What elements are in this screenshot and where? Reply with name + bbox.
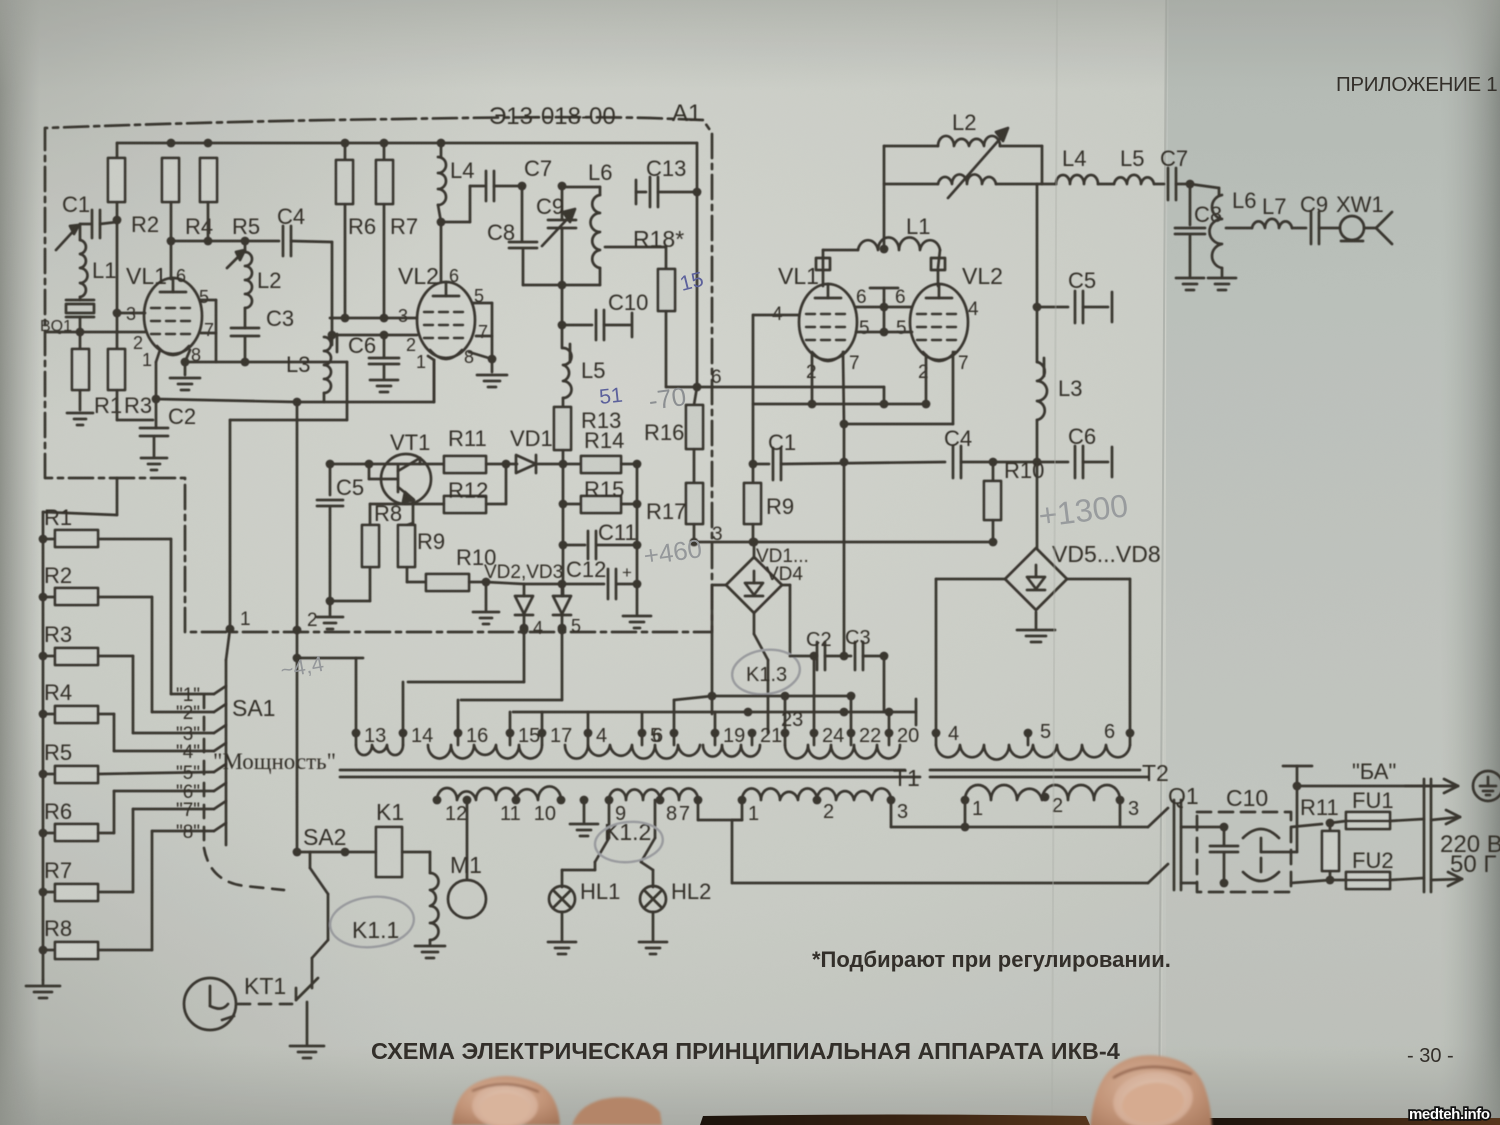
capacitor C2 power: [790, 629, 851, 670]
label VD2 VD3: [484, 562, 563, 583]
VL2 pin numbers: [398, 286, 488, 372]
title СХЕМА ЭЛЕКТРИЧЕСКАЯ: [371, 1038, 1120, 1064]
tube VL1 power: [778, 258, 857, 361]
resistor R9 osc: [398, 523, 445, 567]
resistor R5: [200, 158, 260, 245]
fuse FU2: [1291, 848, 1424, 889]
VL2 pin 5 7 leads and ground: [469, 303, 507, 387]
dashed link KT1: [238, 1003, 292, 1006]
wire grid links between tubes: [856, 307, 912, 332]
tube VL2 oscillator: [398, 263, 475, 359]
heading ПРИЛОЖЕНИЕ 1: [1336, 73, 1497, 96]
T1 secondary tap numbers: [445, 801, 908, 825]
capacitor C5 osc: [317, 464, 364, 605]
svg-text:medteh.info: medteh.info: [1409, 1106, 1490, 1123]
watermark medteh.info: [1409, 1106, 1490, 1123]
wire cathode bus y362: [185, 358, 347, 629]
transformer T1 primary winding: [356, 745, 900, 759]
VL2 power pin7 lead: [952, 352, 955, 424]
label L5: [1120, 146, 1144, 171]
ground under C5: [317, 601, 343, 629]
wire node3 rail: [694, 541, 993, 544]
capacitor C8 power: [1175, 184, 1222, 276]
resistor R8 divider: [39, 831, 214, 959]
capacitor C2: [140, 399, 196, 470]
resistor R2 divider: [39, 563, 214, 712]
feedthrough element inside C10: [1243, 829, 1297, 881]
inductor L3 power: [1037, 307, 1082, 420]
bridge VD1-4 left wire: [708, 585, 726, 714]
label T2: [1142, 760, 1169, 786]
resistor R10 power: [984, 458, 1044, 546]
wire AC line lower y883: [732, 882, 1148, 885]
wire node4 to tap14: [403, 626, 528, 733]
capacitor C1: [56, 192, 117, 250]
table strip dark: [700, 1115, 1500, 1125]
handwritten 51 blue: [598, 384, 624, 409]
wire L3 to bus: [323, 393, 326, 402]
resistor R9 power: [744, 464, 794, 546]
motor M1: [448, 796, 486, 918]
page number -30-: [1407, 1045, 1454, 1067]
capacitor C7 oscillator: [441, 156, 552, 222]
resistor R16: [644, 387, 703, 483]
resistor R1 divider: [39, 505, 214, 694]
capacitor C12: [563, 557, 641, 599]
switch SA1 contact arrows: [214, 686, 226, 831]
transformer T2 primary tap numbers: [948, 721, 1115, 745]
wire node2 to tap13: [293, 630, 363, 733]
VL1 pin 5 and 7 leads: [200, 300, 216, 362]
capacitor C6 oscillator: [348, 333, 399, 392]
handwritten +1300 pencil: [1036, 487, 1130, 534]
arrow БА: [1405, 779, 1458, 793]
inductor L6 oscillator: [562, 160, 612, 285]
inductor L1: [80, 224, 116, 297]
lamp HL2: [640, 862, 711, 940]
label L4: [1062, 146, 1086, 171]
wire top rail: [117, 139, 697, 387]
VL1 power pin7 lead: [840, 352, 849, 428]
corner shadow overlays: [0, 0, 520, 1125]
resistor R4: [162, 158, 213, 245]
bridge rectifier VD1-VD4: [726, 538, 809, 613]
node 1 and 2 labels: [226, 609, 318, 634]
ground under HL1: [548, 942, 576, 954]
filter box C10 dashed: [1197, 785, 1291, 892]
diode VD2: [515, 584, 543, 638]
inductor L3 oscillator: [286, 334, 337, 393]
resistor R12: [413, 464, 506, 513]
note Подбирают при регулировании: [812, 947, 1171, 972]
motor winding coil: [430, 873, 439, 944]
relay contact K1.3: [746, 613, 787, 733]
label БА: [1352, 759, 1396, 784]
capacitor C13: [636, 156, 701, 207]
capacitor C10 oscillator stub: [558, 290, 649, 340]
VL1 pin 1 lead: [152, 350, 161, 403]
crystal BQ1: [40, 297, 94, 336]
resistor R10 osc: [407, 545, 496, 591]
VL1 pin 8 lead and cathode ground: [170, 350, 200, 390]
wire tap7 to tap1: [698, 800, 742, 820]
VL2 power pin labels: [895, 287, 979, 383]
wire AC line upper y827: [732, 800, 1148, 883]
wire cross link y424: [844, 387, 953, 424]
pencil circle around K1.3: [729, 645, 802, 698]
transformer T1 secondary winding: [437, 786, 891, 800]
ground under L6 power: [1208, 278, 1236, 290]
resistor R15: [559, 477, 642, 513]
pencil circle around K1.2: [593, 819, 665, 866]
resistor R11 power line: [1300, 795, 1339, 884]
inductor L1 power: [823, 214, 940, 268]
ground under x637: [623, 616, 651, 628]
fuse FU1: [1330, 788, 1424, 829]
ground under KT1 switch: [290, 1046, 324, 1058]
ground under R10: [473, 582, 499, 624]
bridge VD1-4 right wire: [782, 585, 790, 656]
pencil circle around K1.1: [328, 893, 417, 952]
capacitor C8 oscillator: [487, 186, 566, 289]
VL1 pin 6 lead: [170, 241, 173, 279]
VL1 power pin4 wire: [749, 315, 799, 468]
resistor R5 divider: [39, 740, 214, 783]
resistor R1: [72, 332, 122, 418]
transistor VT1: [369, 430, 431, 523]
transformer T2 primary winding: [936, 745, 1130, 760]
lamp HL1: [549, 862, 620, 940]
switch contact KT1: [296, 978, 318, 1044]
wire node2 to SA2: [293, 658, 302, 856]
wire y696: [712, 692, 855, 701]
inductor L7: [1252, 194, 1306, 228]
wire tap22 stub: [850, 696, 853, 733]
resistor R13: [554, 398, 621, 464]
handwritten +460 pencil: [642, 533, 704, 571]
ground under R1: [67, 413, 93, 425]
relay contact K1.2: [595, 800, 655, 862]
capacitor C6 power stub: [1037, 420, 1112, 478]
diode VD3: [553, 580, 581, 636]
resistor R7 divider: [39, 809, 214, 901]
handwritten 15 blue: [678, 268, 706, 296]
wire tap24 stub: [810, 652, 819, 733]
connector XW1: [1336, 192, 1392, 244]
VL2 pin6 lead: [437, 218, 446, 282]
wire node6: [666, 367, 884, 391]
wire L4 L5 chain: [1042, 175, 1164, 184]
transformer T1 primary taps: [352, 729, 894, 745]
resistor R6 divider: [39, 791, 214, 841]
wire K1 to motor winding: [402, 852, 430, 873]
inductor L2: [227, 237, 281, 308]
label T1: [893, 765, 920, 791]
right page region (darker): [1159, 0, 1500, 1125]
filter capacitor inside C10: [1210, 823, 1238, 888]
wire L2 feed vertical: [880, 146, 889, 253]
switch SA1 contact labels: [176, 685, 200, 843]
transformer T1 primary tap numbers: [364, 709, 919, 747]
wire x884 column: [883, 656, 886, 712]
label 220V 50Hz: [1440, 831, 1500, 878]
wire y464 base: [326, 460, 444, 469]
VL2 pin 1 2 leads: [428, 356, 434, 402]
VL1 power pin2 lead: [808, 355, 817, 408]
finger tip second: [572, 1097, 662, 1125]
VL2 pin2 wire: [332, 331, 417, 340]
capacitor C7 power: [1160, 146, 1194, 200]
VL2 power pin2 lead: [922, 355, 931, 408]
relay coil K1: [376, 799, 404, 877]
resistor R8 osc: [362, 501, 413, 567]
ground under HL2: [639, 942, 667, 954]
wire tap4 5 6 stubs: [588, 696, 712, 733]
wire x844 column: [840, 424, 849, 716]
arrow mains lower: [1431, 872, 1462, 886]
wire L6 tap to L7: [1226, 227, 1252, 230]
mains connector double bar: [1424, 779, 1431, 892]
inductor L4: [438, 143, 474, 222]
wire y712 with terminal: [513, 699, 916, 725]
capacitor C4: [171, 204, 332, 256]
capacitor C1 power: [753, 430, 945, 480]
variable capacitor C9 oscillator: [536, 182, 576, 285]
wire tap15 17 stubs: [510, 712, 542, 733]
handwritten 4,4 pencil: [279, 651, 326, 683]
wire node5 to tap16: [458, 626, 566, 733]
diode VD1: [506, 426, 567, 473]
wire grid VL1 pin3: [46, 220, 145, 332]
left bus of divider: [43, 478, 117, 980]
capacitor C9 power: [1300, 192, 1340, 244]
ground at tap 10: [570, 800, 598, 836]
resistor R2: [108, 158, 159, 237]
plug connector Q1: [1148, 783, 1199, 890]
wire БА terminal: [1283, 766, 1312, 852]
wire tap20 stub: [885, 708, 894, 733]
inductor L5: [562, 285, 605, 398]
transformer T2 secondary winding: [965, 785, 1120, 800]
variable inductor L2 power: [884, 110, 1042, 198]
wire VD2 VD3 feed: [486, 582, 563, 584]
capacitor C3: [231, 306, 294, 362]
bridge rectifier VD5-VD8: [1005, 462, 1161, 610]
arrow mains upper: [1431, 810, 1460, 824]
wire R8 bottom: [330, 567, 370, 601]
capacitor C5 power stub: [1033, 184, 1112, 323]
resistor R6: [336, 143, 376, 322]
wire bus y400: [156, 360, 434, 406]
label A1: [672, 100, 701, 127]
ground under motor winding: [415, 946, 445, 958]
wire x637 column: [633, 460, 642, 614]
switch SA1 selector bus: [226, 629, 230, 845]
VL1 power pin labels: [772, 287, 870, 383]
contact K1.1: [312, 894, 399, 988]
resistor R7: [376, 143, 418, 322]
wire cross link y404: [753, 403, 926, 406]
label Э13-018-00: [489, 103, 616, 130]
node 3 label: [712, 524, 723, 545]
finger thumb left: [452, 1076, 560, 1125]
transformer T1 core: [340, 770, 920, 777]
switch SA2: [297, 824, 376, 894]
wire tap19 stub: [714, 712, 717, 733]
ground under bridge VD5-8: [1017, 612, 1055, 642]
grid cap symbol between tubes: [870, 288, 898, 336]
resistor R3: [108, 313, 153, 420]
wire L3 feed: [328, 242, 337, 339]
resistor R18: [605, 226, 684, 387]
VL1 pin numbers: [126, 287, 214, 370]
label SA1: [232, 695, 275, 721]
A1 enclosure dash-dot border: [45, 117, 712, 632]
inductor L6 power: [1190, 184, 1256, 276]
earth ground circle: [1473, 771, 1500, 801]
label Мощность: [213, 749, 336, 774]
ground under C8 power: [1176, 278, 1204, 290]
timer KT1: [184, 973, 286, 1030]
switch SA1 mechanical dashed link: [204, 695, 284, 890]
finger right large: [1090, 1055, 1212, 1125]
transformer T2 core: [930, 770, 1148, 777]
resistor R14: [563, 428, 637, 473]
wire БА line: [1297, 785, 1452, 788]
T2 secondary taps and numbers: [961, 793, 1140, 820]
capacitor C3 power: [840, 627, 889, 670]
resistor R11 oscillator: [444, 426, 510, 473]
wire AC upper to FU1: [1197, 819, 1334, 828]
capacitor C11: [559, 520, 642, 559]
resistor R4 divider: [39, 680, 214, 751]
resistor R3 divider: [39, 622, 214, 733]
capacitor C4 power: [944, 426, 1041, 478]
wire x563 column: [562, 464, 565, 596]
VL2 grid wire pin3: [330, 317, 417, 320]
handwritten -70 pencil: [647, 381, 688, 416]
transformer T2 primary feeds: [932, 579, 1135, 745]
tube VL2 power: [910, 258, 1003, 361]
resistor R17: [646, 483, 703, 546]
wire tap23 stub: [781, 692, 790, 733]
ground under divider bus: [26, 980, 60, 998]
wire node2 drop: [296, 402, 299, 630]
transformer T1 secondary taps: [433, 796, 896, 805]
tube VL1 oscillator: [126, 263, 202, 355]
